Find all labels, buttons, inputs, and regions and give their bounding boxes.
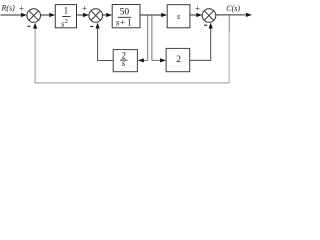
block G2 = 50/(s+1): [112, 5, 140, 28]
wire: block 1/s^2 to summer S2: [77, 13, 89, 17]
wire: S2 to block 50/(s+1): [103, 13, 113, 17]
summing junction S3: [202, 9, 216, 23]
block G1 = 1/s^2: [55, 5, 76, 29]
wire: branch drop to block 2/s: [138, 16, 148, 63]
summing junction S2: [89, 9, 103, 23]
wire: S3 to output C(s): [216, 13, 252, 17]
wire: outer feedback right vertical: [228, 32, 230, 83]
minus sign at S1 feedback input: [27, 25, 30, 27]
svg-text:1: 1: [127, 17, 132, 27]
wire: outer feedback branch below C(s): [228, 15, 230, 32]
svg-text:s: s: [122, 58, 126, 68]
block H1 = 2/s: [113, 50, 137, 72]
wire: block s to summer S3: [190, 13, 202, 17]
svg-text:+: +: [82, 3, 87, 13]
block G3 = s: [167, 5, 190, 28]
wire: block 2/s output to S2 feedback: [96, 23, 114, 61]
svg-text:50: 50: [120, 7, 130, 17]
svg-text:+: +: [19, 4, 24, 14]
svg-text:2: 2: [65, 18, 68, 25]
svg-text:R(s): R(s): [1, 3, 16, 12]
summing junction S1: [27, 9, 41, 23]
wire: outer feedback left riser to S1: [33, 23, 37, 83]
svg-text:1: 1: [64, 6, 69, 16]
svg-text:2: 2: [176, 55, 181, 65]
svg-text:+: +: [120, 17, 125, 27]
wire: block 50/(s+1) to block s: [140, 13, 167, 17]
wire: outer feedback bottom horizontal: [35, 82, 230, 84]
wire: block 2 output to S3 feedback: [190, 23, 213, 61]
svg-text:C(s): C(s): [226, 4, 240, 13]
wire: input R(s) to summer S1: [1, 13, 27, 17]
block H2 = 2: [166, 48, 190, 71]
wire: S1 to block 1/s^2: [41, 13, 56, 17]
svg-text:+: +: [195, 3, 200, 13]
minus sign at S2 feedback input: [90, 26, 93, 28]
minus sign at S3 feedback input: [204, 24, 207, 26]
wire: branch drop to block 2: [152, 16, 166, 63]
